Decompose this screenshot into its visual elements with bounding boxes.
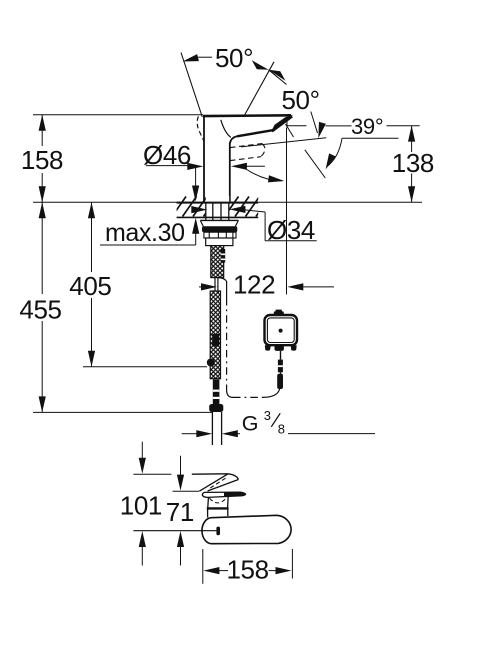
svg-text:138: 138: [392, 148, 434, 178]
svg-text:3: 3: [264, 408, 271, 423]
svg-text:158: 158: [21, 145, 63, 175]
svg-text:39°: 39°: [351, 114, 383, 139]
svg-text:G: G: [242, 411, 259, 435]
svg-text:405: 405: [69, 271, 111, 301]
svg-text:50°: 50°: [215, 43, 253, 73]
svg-text:max.30: max.30: [105, 219, 185, 247]
svg-text:122: 122: [233, 270, 275, 300]
svg-text:71: 71: [166, 497, 194, 527]
svg-text:Ø34: Ø34: [267, 215, 315, 245]
svg-text:455: 455: [19, 295, 61, 325]
svg-text:50°: 50°: [282, 85, 320, 115]
svg-text:8: 8: [278, 422, 285, 437]
svg-text:101: 101: [120, 491, 162, 521]
svg-text:158: 158: [227, 554, 269, 584]
